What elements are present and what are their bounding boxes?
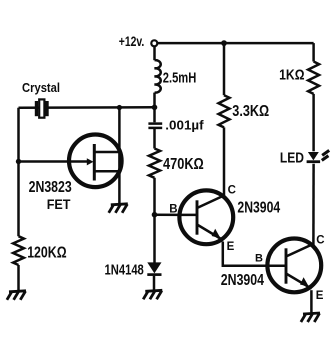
svg-text:2N3904: 2N3904 — [221, 272, 264, 289]
wire: capacitor to 470K — [153, 129, 156, 149]
wire: diode to ground — [153, 276, 156, 291]
svg-text:2N3904: 2N3904 — [237, 199, 280, 216]
wire: left rail down to 120K — [17, 108, 20, 237]
svg-text:Crystal: Crystal — [22, 80, 60, 95]
transistor Q3 2N3904 — [267, 239, 321, 293]
resistor R2 120K zigzag — [13, 236, 24, 265]
svg-text:1N4148: 1N4148 — [105, 261, 144, 278]
junction dot FET rail — [117, 105, 122, 110]
wire: 1K to LED — [312, 94, 315, 151]
LED D2 — [308, 152, 319, 160]
wire: from +12V node down to inductor — [153, 46, 156, 60]
svg-text:2N3823: 2N3823 — [29, 179, 72, 196]
ground bottom-left — [7, 291, 26, 300]
svg-text:+12v.: +12v. — [119, 33, 145, 49]
resistor R1 470K zigzag — [149, 149, 160, 178]
svg-text:E: E — [316, 290, 324, 302]
wire: 120K to ground — [17, 265, 20, 292]
LED emission arrows — [322, 150, 329, 160]
svg-text:1KΩ: 1KΩ — [279, 68, 305, 84]
svg-text:C: C — [316, 234, 324, 246]
svg-text:E: E — [227, 241, 235, 253]
wire: +12V top rail — [157, 42, 313, 45]
capacitor C1 .001uf plates — [148, 122, 162, 125]
resistor R3 3.3K zigzag — [219, 95, 230, 127]
junction dot at 3.3K rail — [221, 40, 227, 46]
crystal Y1 symbol — [35, 99, 49, 117]
svg-text:3.3KΩ: 3.3KΩ — [232, 103, 269, 120]
ground below Q3 — [301, 313, 320, 322]
junction dot crystal wire — [152, 105, 158, 111]
diode D1 1N4148 — [147, 262, 161, 273]
node +12V terminal circle — [151, 40, 157, 46]
wire: right rail from top to 1K — [312, 43, 315, 61]
wire: base1 — [155, 213, 182, 216]
wire: crystal net horizontal — [19, 106, 155, 109]
junction dot gate wire — [16, 159, 21, 164]
wire: 3.3K to Q2 collector — [223, 127, 226, 196]
svg-text:470KΩ: 470KΩ — [163, 156, 204, 173]
inductor L1 2.5mH — [155, 60, 161, 93]
svg-text:B: B — [255, 253, 263, 265]
wire: gate — [19, 160, 89, 163]
ground below diode — [143, 290, 162, 299]
transistor Q2 2N3904 — [179, 190, 233, 244]
wire: 3.3K rail from top dot — [223, 43, 226, 95]
wire: emitter2 to ground — [310, 290, 313, 313]
ground below FET — [109, 204, 128, 213]
wire: FET drain/source rail — [118, 108, 121, 204]
wire: inductor to capacitor — [153, 93, 156, 123]
resistor R4 1K zigzag — [308, 62, 319, 94]
transistor Q1 2N3823 FET — [69, 135, 122, 188]
svg-text:LED: LED — [280, 150, 304, 166]
svg-text:120KΩ: 120KΩ — [27, 244, 67, 261]
svg-text:FET: FET — [47, 196, 71, 212]
svg-text:B: B — [169, 204, 177, 216]
wire: 470K down to diode — [153, 178, 156, 263]
svg-text:.001µf: .001µf — [165, 117, 204, 132]
wire: emitter1 down and right to Q3 base — [223, 242, 268, 266]
wire: LED to Q3 collector — [312, 164, 315, 247]
junction dot base wire — [152, 212, 158, 218]
svg-text:2.5mH: 2.5mH — [163, 69, 197, 86]
svg-text:C: C — [228, 185, 236, 197]
